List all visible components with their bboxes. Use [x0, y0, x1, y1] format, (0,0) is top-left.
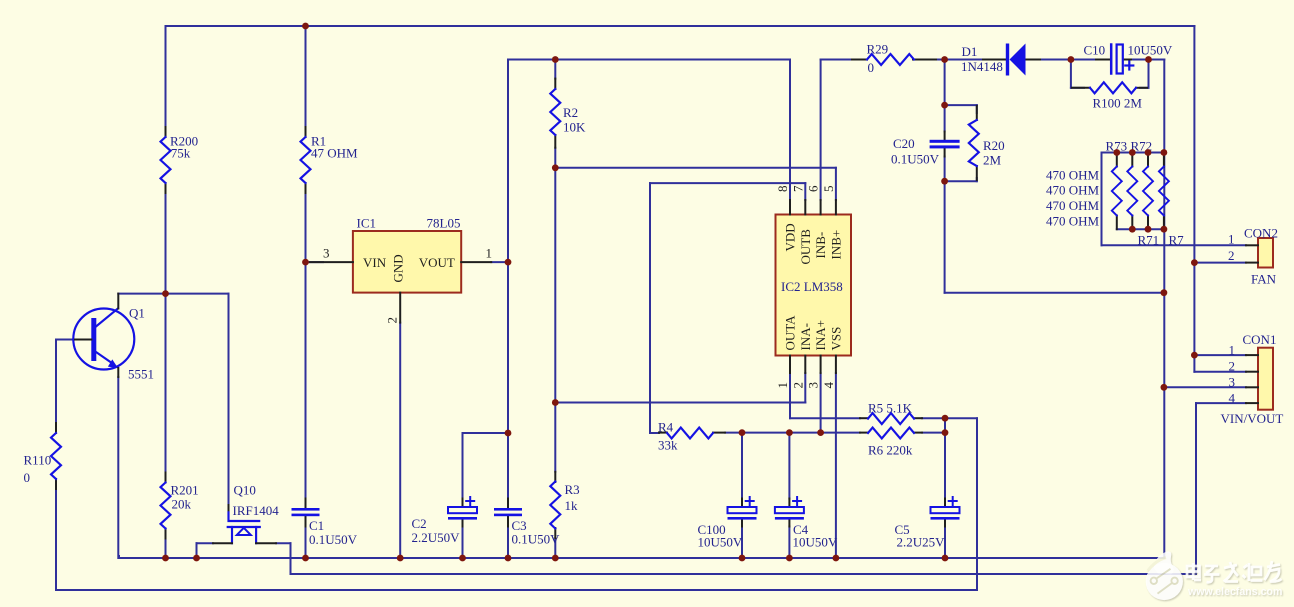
junction bus C3: [505, 555, 512, 562]
svg-text:0: 0: [868, 60, 875, 75]
svg-text:INA-: INA-: [798, 323, 813, 350]
connector CON1: [1246, 348, 1273, 410]
svg-text:2: 2: [1229, 359, 1236, 374]
svg-text:Q10: Q10: [234, 483, 256, 498]
svg-text:INA+: INA+: [813, 320, 828, 350]
wire Q10 drain vertical: [228, 294, 230, 505]
svg-text:2M: 2M: [983, 153, 1002, 168]
wire right column x1164: [1163, 60, 1165, 559]
svg-text:7: 7: [790, 185, 805, 192]
junction IC1 pin1 / 5V column: [505, 259, 512, 266]
wire top rail: [166, 25, 1195, 27]
svg-text:CON1: CON1: [1243, 332, 1277, 347]
svg-text:470 OHM: 470 OHM: [1046, 168, 1100, 183]
wire R201 to ground bus: [165, 539, 167, 559]
junction CON2 pin2 column: [1191, 259, 1198, 266]
svg-text:R6 220k: R6 220k: [868, 443, 913, 458]
junction D1 / C10 / R100 left: [1068, 56, 1075, 63]
svg-text:IC1: IC1: [357, 216, 377, 231]
wire R20 branch top: [945, 104, 977, 106]
junction R3 top / INA-: [552, 399, 559, 406]
svg-text:VSS: VSS: [828, 327, 843, 351]
wire 5V column: [507, 60, 509, 499]
wire R20 bottom drop: [976, 178, 978, 181]
wire VIN return row: [291, 573, 1197, 575]
junction C4 top: [786, 429, 793, 436]
svg-text:C10: C10: [1084, 43, 1106, 58]
wire IC2 pin3 drop: [820, 373, 822, 433]
svg-text:1N4148: 1N4148: [961, 59, 1003, 74]
wire R110 to bottom rail: [55, 489, 57, 590]
junction bus C5: [942, 555, 949, 562]
svg-text:78L05: 78L05: [427, 216, 461, 231]
junction network bottom R7: [1161, 226, 1168, 233]
svg-text:47 OHM: 47 OHM: [311, 145, 358, 160]
wire IC2 pin6 column: [820, 60, 822, 201]
wire R4 row: [725, 432, 860, 434]
capacitor C5: [931, 497, 960, 527]
wire IC2 pin1 drop: [789, 373, 791, 418]
resistor R72: [1127, 153, 1137, 230]
wire network left drop: [1101, 153, 1103, 246]
svg-text:3: 3: [1229, 375, 1236, 390]
wire IC2 pin2 drop: [804, 373, 806, 403]
wire R2 top: [554, 60, 556, 79]
junction C20 / R20 top: [941, 102, 948, 109]
svg-text:20k: 20k: [172, 497, 192, 512]
svg-text:5551: 5551: [128, 367, 154, 382]
wire feedback column x650: [649, 183, 651, 433]
svg-text:1: 1: [486, 246, 493, 261]
wire CON2 pin1 row: [1102, 244, 1247, 246]
wire C2 to ground bus: [462, 527, 464, 559]
svg-text:R5 5.1K: R5 5.1K: [868, 401, 913, 416]
resistor R1: [301, 127, 311, 193]
wire R100 right drop: [1148, 60, 1150, 88]
junction C2 top / 5V column: [505, 430, 512, 437]
junction VDD rail / R2: [552, 56, 559, 63]
junction bus C1: [302, 555, 309, 562]
resistor R73: [1112, 153, 1122, 230]
junction CON1 pin3 column: [1161, 384, 1168, 391]
wire CON2 pin2 row: [1194, 262, 1246, 264]
wire IC2 pin8 VDD drop: [789, 60, 791, 201]
wire R5 right to node: [922, 417, 977, 419]
wire IC2 pin4 VSS column: [835, 373, 837, 558]
svg-text:OUTA: OUTA: [783, 315, 798, 351]
svg-text:75k: 75k: [171, 145, 191, 160]
wire C3 to ground bus: [507, 527, 509, 559]
wire IC2 pin5 drop: [835, 168, 837, 200]
junction R29 / D1 / C20: [941, 56, 948, 63]
wire right border column: [1193, 26, 1195, 372]
svg-text:0.1U50V: 0.1U50V: [891, 152, 940, 167]
junction bus C100: [739, 555, 746, 562]
wire C5 column: [944, 418, 946, 498]
svg-text:2: 2: [1228, 248, 1235, 263]
watermark chinese glyphs: [1187, 561, 1282, 582]
svg-text:470 OHM: 470 OHM: [1046, 198, 1100, 213]
wire network top rail: [1102, 152, 1165, 154]
svg-text:R201: R201: [171, 483, 199, 498]
svg-text:33k: 33k: [658, 438, 678, 453]
junction C10 / R100 right: [1145, 56, 1152, 63]
wire OUTB feedback row: [650, 182, 805, 184]
junction bus R201: [162, 555, 169, 562]
wire IC2 pin7 drop: [804, 183, 806, 200]
op-amp IC2 LM358: [776, 200, 852, 373]
wire fan drive row: [945, 292, 1164, 294]
wire INB+ row: [555, 167, 836, 169]
wire Q1 emitter down: [117, 377, 119, 558]
wire left column R200 top: [165, 26, 167, 127]
junction bus C4: [786, 555, 793, 562]
svg-text:D1: D1: [962, 44, 978, 59]
wire C2 top horizontal: [463, 432, 509, 434]
svg-text:10U50V: 10U50V: [698, 535, 743, 550]
wire Q1 emitter corner: [118, 556, 120, 558]
svg-text:8: 8: [775, 186, 790, 193]
junction CON1 pin1 column: [1191, 352, 1198, 359]
wire C20 column top: [944, 60, 946, 132]
svg-text:4: 4: [1229, 391, 1236, 406]
svg-text:OUTB: OUTB: [798, 229, 813, 265]
wire CON1 pin2 row: [1194, 371, 1246, 373]
svg-text:R100 2M: R100 2M: [1093, 96, 1143, 111]
junction R5 / C5 top: [942, 415, 949, 422]
wire IC1 pin1 to node: [491, 261, 508, 263]
resistor R5: [860, 413, 922, 424]
wire C100 ground: [741, 527, 743, 559]
wire C20 bottom: [944, 157, 946, 293]
wire pin6 top corner to R29: [821, 59, 852, 61]
svg-text:0.1U50V: 0.1U50V: [512, 532, 561, 547]
resistor R7: [1159, 153, 1169, 230]
junction bus C2: [459, 555, 466, 562]
resistor R20: [969, 106, 979, 180]
svg-text:R71: R71: [1138, 233, 1160, 248]
junction Q1 collector / R200 column: [162, 290, 169, 297]
junction bus Q10 gate: [193, 555, 200, 562]
capacitor C1: [292, 499, 320, 527]
junction network bottom R72: [1129, 226, 1136, 233]
junction fan drive row: [1161, 289, 1168, 296]
wire C1 to ground bus: [305, 527, 307, 559]
svg-text:R7: R7: [1169, 233, 1185, 248]
wire D1 to C10 node: [1040, 59, 1071, 61]
capacitor C10: [1071, 45, 1133, 74]
svg-text:2.2U50V: 2.2U50V: [412, 530, 461, 545]
svg-text:10U50V: 10U50V: [1128, 43, 1173, 58]
wire VDD rail horizontal: [508, 59, 790, 61]
transistor Q1: [73, 294, 134, 377]
resistor R110: [51, 423, 61, 489]
wire OUTA row to R5: [790, 417, 860, 419]
resistor R201: [161, 473, 171, 539]
wire R1 to C1: [305, 193, 307, 499]
wire Q10 source drop: [290, 543, 292, 574]
wire IC1 pin3 stub: [306, 261, 324, 263]
wire R29 right to D1 node: [936, 59, 983, 61]
junction top rail / R1: [302, 23, 309, 30]
svg-text:C2: C2: [412, 516, 427, 531]
junction C20 / R20 bottom: [941, 178, 948, 185]
watermark logo circle: [1146, 551, 1183, 600]
wire ground bus: [119, 557, 1164, 559]
junction network rail R72: [1129, 149, 1136, 156]
svg-text:1: 1: [775, 382, 790, 389]
svg-text:VOUT: VOUT: [419, 255, 455, 270]
resistor R100: [1072, 82, 1147, 93]
capacitor C4: [775, 497, 804, 527]
svg-text:R29: R29: [867, 42, 889, 57]
svg-text:0.1U50V: 0.1U50V: [309, 532, 358, 547]
wire R100 left lead-in: [1071, 87, 1084, 89]
svg-text:6: 6: [806, 185, 821, 192]
wire R4 left lead-in: [650, 432, 659, 434]
svg-text:4: 4: [821, 382, 836, 389]
svg-text:1: 1: [1229, 343, 1236, 358]
wire R100 left drop: [1070, 60, 1072, 88]
svg-text:C20: C20: [893, 136, 915, 151]
connector CON2: [1246, 238, 1273, 268]
svg-text:3: 3: [806, 382, 821, 389]
op-amp regulator IC1 78L05: [310, 231, 491, 323]
svg-text:VIN: VIN: [363, 255, 387, 270]
resistor R3: [550, 472, 560, 538]
svg-text:GND: GND: [391, 254, 406, 282]
svg-text:IC2 LM358: IC2 LM358: [781, 279, 843, 294]
svg-text:0: 0: [24, 470, 31, 485]
wire CON1 pin1 row: [1194, 354, 1246, 356]
wire CON1 pin4 column: [1195, 403, 1197, 574]
capacitor C20: [930, 132, 960, 157]
wire R200 to Q1 node: [165, 193, 167, 473]
wire C5 ground: [944, 527, 946, 559]
svg-text:R110: R110: [24, 453, 52, 468]
wire Q10 gate drop: [196, 543, 198, 558]
wire C100 column: [741, 433, 743, 499]
wire R6 right to C5: [922, 432, 945, 434]
wire R100 right lead-out: [1140, 87, 1149, 89]
wire R3 to ground bus: [554, 538, 556, 558]
wire Q1 base left: [56, 339, 75, 341]
wire IC1 pin2 GND column: [399, 323, 401, 558]
svg-text:1k: 1k: [565, 498, 579, 513]
svg-text:INB-: INB-: [813, 232, 828, 259]
resistor R29: [852, 54, 936, 65]
svg-text:Q1: Q1: [129, 306, 145, 321]
svg-text:R20: R20: [983, 138, 1005, 153]
wire R20 branch bottom: [945, 180, 977, 182]
transistor Q10: [213, 505, 276, 543]
capacitor C3: [494, 499, 522, 527]
junction IC1 pin3 / R1 column: [302, 259, 309, 266]
svg-text:470 OHM: 470 OHM: [1046, 183, 1100, 198]
svg-text:5: 5: [821, 186, 836, 193]
wire R1 column top: [305, 26, 307, 127]
svg-text:10U50V: 10U50V: [793, 535, 838, 550]
svg-text:VDD: VDD: [783, 223, 798, 251]
capacitor C100: [728, 497, 757, 527]
svg-text:2: 2: [790, 382, 805, 389]
wire R2 bottom to R3: [554, 148, 556, 472]
junction R6 / C5: [942, 429, 949, 436]
resistor R2: [550, 79, 560, 148]
resistor R71: [1143, 153, 1153, 230]
svg-text:10K: 10K: [563, 120, 586, 135]
wire network bottom rail: [1117, 228, 1164, 230]
wire CON1 pin3 row: [1164, 386, 1246, 388]
wire Q10 source horizontal: [276, 542, 291, 544]
junction network rail R73: [1113, 149, 1120, 156]
wire C10 right node: [1130, 59, 1164, 61]
svg-text:R2: R2: [563, 105, 578, 120]
wire base column to R110: [55, 340, 57, 424]
resistor R6: [860, 428, 922, 439]
resistor R4: [659, 428, 725, 439]
wire C4 ground: [788, 527, 790, 559]
svg-text:VIN/VOUT: VIN/VOUT: [1221, 411, 1284, 426]
wire Q10 gate horizontal: [197, 542, 214, 544]
capacitor C2: [448, 497, 477, 527]
svg-text:CON2: CON2: [1244, 226, 1278, 241]
svg-text:INB+: INB+: [828, 230, 843, 260]
svg-text:2: 2: [385, 317, 400, 324]
junction bus R3: [552, 555, 559, 562]
svg-text:3: 3: [323, 246, 330, 261]
wire Q1 collector horizontal: [118, 293, 228, 295]
svg-text:IRF1404: IRF1404: [233, 503, 280, 518]
svg-text:FAN: FAN: [1251, 272, 1277, 287]
svg-text:R3: R3: [565, 482, 580, 497]
wire C2 column: [462, 433, 464, 499]
junction network bottom R71: [1145, 226, 1152, 233]
svg-text:1: 1: [1228, 232, 1235, 247]
wire bottom rail: [56, 589, 977, 591]
junction network rail R71: [1145, 149, 1152, 156]
svg-text:www.elecfans.com: www.elecfans.com: [1187, 586, 1282, 598]
wire R20 top drop: [976, 105, 978, 113]
junction network rail R7: [1161, 149, 1168, 156]
junction R2 bottom / INB+: [552, 164, 559, 171]
diode D1: [983, 44, 1040, 76]
junction IC2 pin3 row: [817, 429, 824, 436]
junction bus VSS: [833, 555, 840, 562]
resistor R200: [161, 127, 171, 193]
wire INA- row: [555, 402, 805, 404]
junction bus IC1 GND: [397, 555, 404, 562]
svg-text:2.2U25V: 2.2U25V: [897, 535, 946, 550]
svg-text:R4: R4: [658, 420, 674, 435]
junction C100 top: [739, 429, 746, 436]
svg-text:470 OHM: 470 OHM: [1046, 213, 1100, 228]
svg-text:C1: C1: [309, 518, 324, 533]
wire R5 node down right side: [976, 418, 978, 590]
wire CON1 pin4 row: [1196, 402, 1246, 404]
wire C4 column: [788, 433, 790, 499]
